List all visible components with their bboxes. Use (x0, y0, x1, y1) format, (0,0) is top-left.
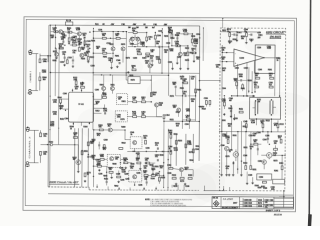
svg-text:P1 CN: P1 CN (66, 20, 72, 22)
cluster lower mid2 (146, 162, 150, 164)
relay SPKR box (250, 97, 281, 119)
extra tr out (225, 146, 229, 150)
svg-text:56k: 56k (191, 101, 194, 103)
bias network box (128, 77, 140, 84)
svg-text:R233: R233 (159, 155, 163, 157)
transistor Q213 (177, 108, 181, 112)
svg-text:0.5W: 0.5W (187, 143, 191, 145)
svg-text:C246: C246 (248, 175, 252, 177)
svg-text:22k: 22k (228, 125, 231, 127)
dot fill lower (93, 166, 94, 167)
svg-text:R244: R244 (91, 40, 95, 42)
svg-text:R251: R251 (239, 109, 243, 111)
dashed block C (130, 137, 142, 149)
transistor Q221 (108, 128, 112, 132)
svg-text:R212: R212 (90, 57, 94, 59)
IC A1 pins bottom (72, 122, 74, 125)
svg-text:C226: C226 (138, 185, 142, 187)
wire stage2 mesh (134, 34, 136, 37)
svg-text:0.5W: 0.5W (222, 136, 226, 138)
resistor R201 (39, 59, 41, 63)
wire fill lower (94, 165, 98, 167)
svg-text:1k: 1k (130, 134, 132, 136)
svg-text:R212: R212 (50, 125, 54, 127)
svg-text:R233: R233 (81, 58, 85, 60)
transistor Q233 (262, 160, 266, 164)
svg-text:2k2: 2k2 (108, 126, 111, 128)
svg-text:10u: 10u (196, 59, 199, 61)
transistor Q202 (77, 32, 81, 36)
svg-text:22k: 22k (184, 55, 187, 57)
ground G3a (87, 60, 89, 61)
svg-text:330: 330 (145, 63, 148, 65)
svg-text:C226: C226 (91, 65, 95, 67)
svg-text:56k: 56k (132, 30, 135, 32)
svg-text:4k7: 4k7 (186, 117, 189, 119)
svg-text:10u: 10u (130, 168, 133, 170)
svg-text:3k3: 3k3 (43, 79, 46, 81)
svg-text:C218: C218 (166, 43, 170, 45)
res dbG (254, 143, 258, 145)
svg-text:R212: R212 (190, 52, 194, 54)
rail V1 (49, 25, 52, 187)
svg-text:P.B1: P.B1 (153, 24, 157, 26)
junction node out (283, 196, 285, 198)
svg-text:R261: R261 (53, 60, 57, 62)
svg-text:0.5W: 0.5W (76, 29, 80, 31)
rail V stage2 b (167, 29, 169, 96)
junction dots on box edge (199, 80, 200, 81)
rail H 120 (164, 120, 199, 122)
resistor R281 (229, 33, 231, 37)
svg-text:47u: 47u (73, 52, 76, 54)
resistor R228 (137, 53, 141, 55)
svg-text:2u2: 2u2 (74, 134, 77, 136)
dashed power amp box (219, 28, 285, 191)
wire TL extra (64, 54, 66, 57)
svg-text:4k7: 4k7 (118, 99, 121, 101)
wire right-top mesh (171, 38, 173, 46)
svg-text:R233: R233 (178, 140, 182, 142)
resistor R250 (163, 115, 165, 119)
resistor R209 (59, 47, 63, 49)
resistor R206 (68, 31, 72, 33)
res R213b (84, 41, 86, 45)
jack J1 channel-1 input (29, 52, 31, 54)
svg-text:2u2: 2u2 (176, 125, 179, 127)
svg-text:C218: C218 (116, 173, 120, 175)
title block rows (240, 200, 294, 202)
cap fillE (145, 181, 147, 183)
rail H stage2 (128, 46, 169, 48)
resistor R263 (100, 158, 104, 160)
svg-text:C246: C246 (263, 188, 267, 190)
svg-text:56k: 56k (99, 127, 102, 129)
transistor Q203 (55, 52, 59, 56)
extra q TM (148, 64, 152, 68)
resistor R215 above IC (81, 86, 85, 88)
svg-text:R273: R273 (131, 79, 135, 81)
svg-text:10u: 10u (83, 35, 86, 37)
svg-text:R273: R273 (120, 119, 124, 121)
right rect out (273, 179, 285, 184)
resistor R222 (111, 58, 113, 62)
svg-text:47u: 47u (274, 125, 277, 127)
rail LL b (77, 128, 79, 170)
resistor R246 (133, 101, 137, 103)
svg-text:47u: 47u (97, 135, 100, 137)
test point TP2 (50, 143, 52, 145)
svg-text:R261: R261 (197, 89, 201, 91)
svg-text:330: 330 (173, 107, 176, 109)
svg-text:R261: R261 (196, 146, 200, 148)
svg-text:C204: C204 (222, 88, 226, 90)
transistor Q204 (80, 53, 84, 57)
matched pair ellipse (129, 37, 141, 44)
svg-text:10u: 10u (102, 35, 105, 37)
svg-text:R233: R233 (191, 36, 195, 38)
svg-text:R233: R233 (112, 163, 116, 165)
svg-text:C226: C226 (136, 172, 140, 174)
resistor R203 (40, 133, 42, 137)
rail V3 (58, 43, 61, 144)
wire gap cross1 (199, 80, 219, 82)
svg-text:R261: R261 (233, 135, 237, 137)
svg-text:CHANNEL 1: CHANNEL 1 (29, 70, 32, 82)
svg-text:R273: R273 (180, 181, 184, 183)
svg-text:C246: C246 (258, 161, 262, 163)
svg-text:C246: C246 (244, 206, 248, 208)
rail H mid2 (93, 74, 168, 76)
svg-text:R244: R244 (170, 38, 174, 40)
wire input to main box (40, 55, 50, 57)
junction above dashed box (222, 18, 223, 19)
svg-text:330: 330 (108, 60, 111, 62)
svg-text:R251: R251 (104, 178, 108, 180)
ground G1 (68, 42, 70, 43)
svg-text:R261: R261 (274, 170, 278, 172)
svg-text:C246: C246 (244, 203, 248, 205)
svg-text:2k2: 2k2 (274, 143, 277, 145)
resistor R208 (75, 39, 77, 43)
svg-text:R251: R251 (129, 75, 133, 77)
resistor R253 (186, 119, 190, 121)
rail DB left (221, 45, 223, 96)
resistor R285 (269, 86, 273, 88)
scanned page right edge (309, 0, 310, 226)
capacitor C254 (156, 159, 158, 161)
capacitor C244 (184, 95, 186, 97)
svg-text:1k: 1k (229, 151, 231, 153)
resistor R271 (205, 101, 207, 105)
ground G11 (184, 183, 186, 184)
svg-text:2u2: 2u2 (160, 167, 163, 169)
svg-text:10u: 10u (169, 32, 172, 34)
svg-text:R261: R261 (176, 112, 180, 114)
svg-text:0.5W: 0.5W (267, 48, 271, 50)
svg-text:56k: 56k (241, 38, 244, 40)
rail V right c (194, 75, 196, 120)
svg-text:C204: C204 (42, 72, 46, 74)
gnd fill (98, 169, 100, 170)
resistor R282 (246, 33, 248, 37)
resistor R290 (227, 140, 229, 144)
svg-text:R212: R212 (172, 175, 176, 177)
lower row r1 (172, 177, 176, 179)
svg-text:56k: 56k (183, 80, 186, 82)
svg-text:R273: R273 (126, 58, 130, 60)
driver box (257, 174, 272, 180)
svg-text:22k: 22k (109, 169, 112, 171)
resistor R284 (255, 86, 259, 88)
svg-text:R244: R244 (255, 185, 259, 187)
svg-text:C204: C204 (196, 34, 200, 36)
svg-text:2u2: 2u2 (222, 70, 225, 72)
svg-text:R273: R273 (189, 152, 193, 154)
output module box (255, 45, 275, 74)
dot field tb (63, 31, 64, 32)
wire db mid (221, 96, 223, 132)
svg-text:C246: C246 (95, 90, 99, 92)
ground LL (77, 170, 79, 171)
resistor R210 (78, 47, 80, 51)
capacitor C281 (233, 33, 235, 35)
resistor R204 (40, 151, 42, 155)
speck field IC (72, 90, 73, 91)
resistor R205 (54, 31, 58, 33)
svg-text:R212: R212 (122, 143, 126, 145)
svg-text:R212: R212 (49, 141, 53, 143)
svg-text:10u: 10u (183, 93, 186, 95)
svg-text:C226: C226 (257, 47, 261, 49)
rail LL d (87, 128, 89, 187)
extra res TM (154, 35, 156, 39)
svg-text:10u: 10u (168, 29, 171, 31)
svg-text:C218: C218 (258, 200, 262, 202)
wire LL mesh (75, 144, 79, 146)
svg-text:C226: C226 (98, 174, 102, 176)
svg-text:0.5W: 0.5W (183, 31, 187, 33)
svg-text:R261: R261 (258, 35, 262, 37)
svg-text:P.B1: P.B1 (121, 24, 125, 26)
rails out stage (221, 121, 223, 174)
svg-text:C218: C218 (68, 57, 72, 59)
transistor Q211 (110, 86, 114, 90)
cap dbB (230, 110, 232, 112)
dot db2 (246, 131, 247, 132)
resistor R219 (102, 37, 106, 39)
speck DB top (229, 31, 230, 32)
op-amp pin stubs (236, 64, 238, 96)
rail V stage2 a (161, 29, 163, 73)
svg-text:2u2: 2u2 (191, 78, 194, 80)
ground G12 (246, 182, 248, 183)
svg-text:22k: 22k (67, 29, 70, 31)
svg-text:4k7: 4k7 (229, 100, 232, 102)
svg-text:R212: R212 (185, 48, 189, 50)
small rect out (262, 181, 266, 183)
driver resistors c (281, 166, 283, 170)
dashed block E (129, 170, 142, 182)
relay contact B (269, 100, 271, 114)
svg-text:100k: 100k (239, 76, 243, 78)
svg-text:330: 330 (255, 75, 258, 77)
capacitor C205 (104, 112, 106, 114)
capacitor C245 (256, 77, 260, 79)
resistor R211 (87, 56, 89, 60)
res dbE (262, 124, 264, 128)
svg-text:0.5W: 0.5W (222, 101, 226, 103)
resistor R243 (176, 45, 180, 47)
lower row r3 (188, 177, 192, 179)
main box top notch connector P1 (65, 22, 72, 25)
svg-text:R261: R261 (122, 101, 126, 103)
svg-text:330: 330 (132, 99, 135, 101)
resistor R266 (169, 167, 173, 169)
svg-text:R251: R251 (252, 169, 256, 171)
res R243b (168, 31, 172, 33)
relay contact A (254, 102, 256, 114)
svg-text:C204: C204 (257, 132, 261, 134)
svg-text:C226: C226 (204, 98, 208, 100)
svg-text:C226: C226 (146, 148, 150, 150)
jack J4 channel-2 input (26, 162, 28, 164)
svg-text:C246: C246 (258, 69, 262, 71)
rail LL c (81, 128, 83, 187)
svg-text:C246: C246 (243, 121, 247, 123)
svg-text:22k: 22k (141, 114, 144, 116)
svg-text:R244: R244 (83, 126, 87, 128)
gnd bottom dash1 (252, 182, 254, 183)
svg-text:C204: C204 (165, 115, 169, 117)
svg-text:C218: C218 (60, 62, 64, 64)
resistor R242 (191, 39, 193, 43)
svg-text:P.B1: P.B1 (95, 24, 99, 26)
op-amp IC202 triangle (234, 49, 264, 67)
svg-text:C226: C226 (98, 30, 102, 32)
svg-text:R261: R261 (115, 55, 119, 57)
resistor R225 (133, 32, 137, 34)
svg-text:C204: C204 (235, 68, 239, 70)
extra caps TL (63, 57, 65, 59)
svg-text:R261: R261 (222, 120, 226, 122)
svg-text:2u2: 2u2 (269, 84, 272, 86)
svg-text:C218: C218 (106, 43, 110, 45)
gnd gapR (233, 118, 235, 119)
rail V2 (54, 25, 56, 96)
svg-text:R273: R273 (170, 96, 174, 98)
svg-text:100k: 100k (186, 110, 190, 112)
rail V5 (92, 130, 94, 187)
dot field tbr (168, 31, 169, 32)
transistor Q209 (178, 52, 182, 56)
speck field LM (124, 129, 125, 130)
svg-text:100k: 100k (53, 102, 57, 104)
op-amp output wire (264, 57, 280, 59)
svg-text:R273: R273 (121, 44, 125, 46)
resistor R227 (142, 42, 144, 46)
svg-text:R273: R273 (273, 161, 277, 163)
res fillA (97, 165, 101, 167)
resistor R245 (150, 93, 152, 97)
transistor Q205 (111, 47, 115, 51)
wire stage1 verts (112, 51, 114, 59)
svg-text:R251: R251 (244, 147, 248, 149)
capacitor C241 (171, 34, 173, 38)
svg-text:47u: 47u (72, 42, 75, 44)
IC A1 pins right (94, 98, 102, 100)
wire q212 (155, 107, 157, 117)
resistor R262 (145, 140, 147, 144)
svg-text:3k3: 3k3 (164, 52, 167, 54)
svg-text:1k0: 1k0 (145, 27, 148, 29)
cluster lower r2 (151, 175, 155, 177)
svg-text:3k3: 3k3 (136, 160, 139, 162)
svg-text:330: 330 (159, 105, 162, 107)
gnd tbr (176, 62, 178, 63)
capacitor C262 (170, 150, 172, 154)
svg-text:R212: R212 (243, 163, 247, 165)
svg-text:2u2: 2u2 (115, 35, 118, 37)
svg-text:56k: 56k (43, 153, 46, 155)
capacitor C233 (151, 60, 153, 62)
svg-text:100k: 100k (170, 50, 174, 52)
wire out extra (250, 132, 252, 161)
cap fillB (105, 181, 107, 183)
rect gapR2 (239, 111, 243, 113)
ground G4b (151, 64, 153, 65)
svg-text:0.5W: 0.5W (226, 138, 230, 140)
wire stubs bottom main (171, 185, 173, 188)
ground G10 (175, 183, 177, 184)
resistor R291 (280, 139, 282, 143)
svg-text:R251: R251 (170, 119, 174, 121)
svg-text:2u2: 2u2 (75, 88, 78, 90)
resistor R261 (99, 129, 103, 131)
res R212b (72, 44, 76, 46)
svg-text:4u7: 4u7 (152, 27, 155, 29)
svg-text:C246: C246 (221, 145, 225, 147)
svg-text:R261: R261 (174, 134, 178, 136)
transistor Q212 (155, 103, 159, 107)
svg-text:100k: 100k (271, 189, 275, 191)
transistor Q226 (76, 160, 81, 165)
svg-text:22k: 22k (265, 202, 268, 204)
res fillD (117, 176, 121, 178)
speck out (237, 131, 238, 132)
ground G5 (172, 67, 174, 68)
svg-text:56k: 56k (173, 84, 176, 86)
svg-text:NR 204: NR 204 (213, 198, 218, 200)
svg-text:1k: 1k (169, 148, 171, 150)
svg-text:C226: C226 (124, 174, 128, 176)
svg-text:C204: C204 (263, 139, 267, 141)
cap C207 (62, 41, 64, 43)
svg-text:CHANNEL 2: CHANNEL 2 (28, 135, 31, 159)
capacitor C203 (87, 48, 89, 50)
svg-text:R233: R233 (188, 175, 192, 177)
speck field RT2 (182, 82, 183, 83)
rail V lower b (167, 129, 169, 188)
svg-text:R233: R233 (161, 177, 165, 179)
logo diamond (213, 201, 219, 207)
svg-text:1k: 1k (132, 67, 134, 69)
res gapR (236, 82, 238, 86)
svg-text:56k: 56k (144, 168, 147, 170)
svg-text:R261: R261 (86, 51, 90, 53)
cap dbF (267, 137, 269, 139)
svg-text:C246: C246 (248, 203, 252, 205)
